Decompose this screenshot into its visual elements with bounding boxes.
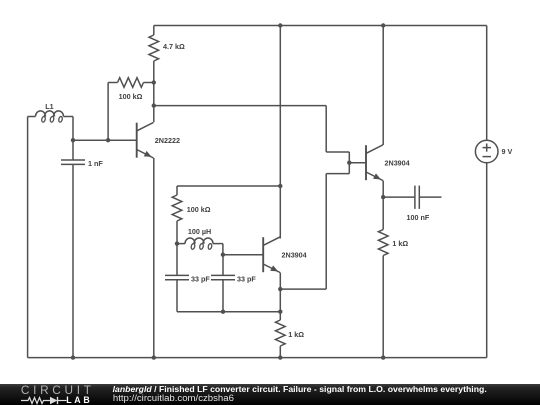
node A (tank/base junction) bbox=[71, 138, 75, 142]
node Q1 emitter / bottom rail bbox=[152, 355, 156, 359]
node Q3 base bbox=[347, 161, 351, 165]
footer title text bbox=[113, 385, 487, 394]
node B (feedback junction) bbox=[106, 138, 110, 142]
resistor R1 4.7 kOhm bbox=[149, 26, 185, 83]
svg-text:9 V: 9 V bbox=[502, 147, 513, 156]
node top-mixer junction bbox=[381, 23, 385, 27]
wire Q2 emitter to Q3 base staircase bbox=[280, 163, 349, 289]
wire oscillator collector rail bbox=[279, 26, 281, 239]
node osc tank left bbox=[175, 241, 179, 245]
capacitor C4 100 nF output bbox=[383, 186, 441, 222]
voltage source V1 9 V bbox=[475, 140, 512, 163]
node Q2 emitter junction bbox=[278, 287, 282, 291]
wire Q3 collector up bbox=[382, 26, 384, 146]
wire left rail bbox=[27, 117, 29, 358]
wire top rail bbox=[154, 25, 487, 27]
node R4 / bottom rail bbox=[278, 355, 282, 359]
transistor Q1 2N2222 bbox=[137, 122, 180, 158]
wire Q1 collector to Q3 base bbox=[154, 106, 349, 163]
resistor R3 100 kOhm (osc bias) bbox=[172, 186, 211, 244]
wire Q1 emitter down bbox=[153, 158, 155, 358]
node tank bottom junction bbox=[221, 310, 225, 314]
svg-text:100 kΩ: 100 kΩ bbox=[119, 92, 143, 101]
logo resistor-diode glyph bbox=[21, 396, 91, 405]
wire Q3 emitter down bbox=[382, 181, 384, 230]
svg-text:L1: L1 bbox=[45, 102, 53, 111]
svg-text:100 µH: 100 µH bbox=[188, 227, 211, 236]
transistor Q2 2N3904 (oscillator) bbox=[263, 237, 306, 273]
node Q3 emitter junction bbox=[381, 195, 385, 199]
wire osc base bbox=[223, 254, 263, 256]
wire osc top horizontal bbox=[177, 185, 280, 187]
svg-text:1 kΩ: 1 kΩ bbox=[392, 239, 408, 248]
transistor Q3 2N3904 (mixer) bbox=[366, 145, 410, 181]
wire node B up to R2 bbox=[108, 83, 117, 141]
wire L1 to node A bbox=[72, 117, 74, 141]
wire bottom rail bbox=[28, 357, 487, 359]
resistor R4 1 kOhm (osc emitter) bbox=[276, 312, 305, 358]
svg-text:100 kΩ: 100 kΩ bbox=[187, 205, 211, 214]
capacitor C2 33 pF (left) bbox=[165, 244, 223, 312]
node R5 / bottom rail bbox=[381, 355, 385, 359]
svg-text:1 kΩ: 1 kΩ bbox=[288, 330, 304, 339]
svg-text:2N3904: 2N3904 bbox=[282, 250, 307, 259]
wire node A to base bbox=[73, 139, 137, 141]
wire right rail upper bbox=[486, 26, 488, 141]
wire tank bottom to emitter column bbox=[223, 311, 280, 313]
svg-text:2N2222: 2N2222 bbox=[155, 136, 180, 145]
svg-text:4.7 kΩ: 4.7 kΩ bbox=[163, 42, 185, 51]
node emitter column / tank bottom bbox=[278, 310, 282, 314]
node collector junction bbox=[152, 103, 156, 107]
node R1/R2 junction bbox=[152, 80, 156, 84]
node osc top junction bbox=[278, 184, 282, 188]
resistor R5 1 kOhm (mixer emitter) bbox=[378, 230, 408, 358]
wire collector node vertical bbox=[153, 83, 155, 123]
wire Q2 emitter down bbox=[279, 273, 281, 312]
logo CIRCUIT text bbox=[21, 384, 95, 398]
capacitor C3 33 pF (right) bbox=[211, 255, 256, 312]
capacitor C1 1 nF bbox=[61, 140, 103, 357]
node top-osc junction bbox=[278, 23, 282, 27]
svg-text:2N3904: 2N3904 bbox=[385, 158, 410, 167]
logo LAB text bbox=[66, 395, 92, 405]
footer url text bbox=[113, 394, 234, 404]
node C1 / bottom rail bbox=[71, 355, 75, 359]
svg-text:33 pF: 33 pF bbox=[191, 274, 210, 283]
inductor L2 100 uH bbox=[177, 227, 223, 255]
svg-text:33 pF: 33 pF bbox=[237, 274, 256, 283]
node osc base junction bbox=[221, 253, 225, 257]
svg-text:100 nF: 100 nF bbox=[407, 213, 430, 222]
svg-text:1 nF: 1 nF bbox=[88, 159, 103, 168]
inductor L1 bbox=[28, 102, 73, 122]
resistor R2 100 kOhm (feedback) bbox=[118, 78, 154, 101]
wire right rail lower bbox=[486, 163, 488, 358]
wire Q3 base lead bbox=[349, 162, 366, 164]
